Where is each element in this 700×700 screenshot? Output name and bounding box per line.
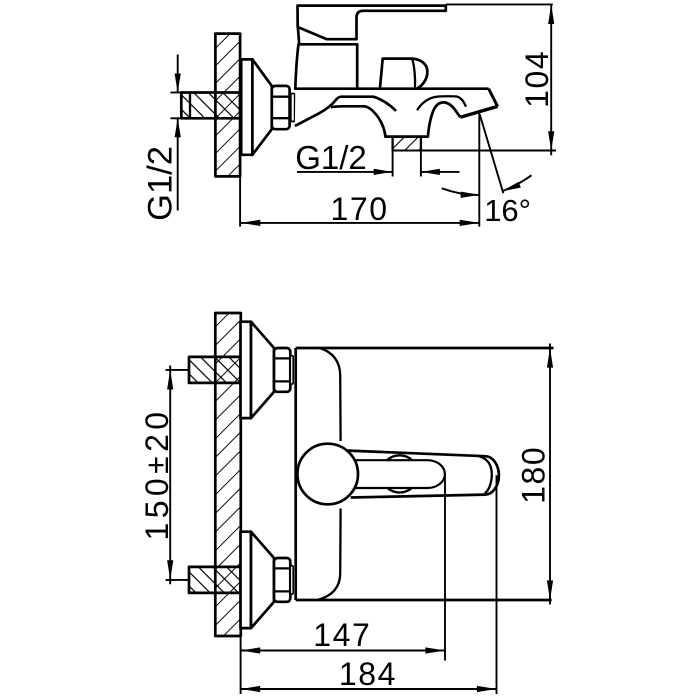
- lever end inner arc: [479, 456, 492, 493]
- svg-text:G1/2: G1/2: [295, 139, 367, 176]
- cone lower: [251, 532, 274, 628]
- extension line from wall face: [239, 176, 241, 226]
- handle lever outline: [346, 451, 499, 498]
- washer: [291, 94, 295, 122]
- dimension 104: [446, 4, 555, 155]
- outlet stub hatched: [393, 137, 421, 151]
- escutcheon flange lower: [241, 532, 252, 628]
- wall: [215, 34, 240, 177]
- pipe: [181, 93, 240, 119]
- valve body: [295, 44, 357, 88]
- dimension G1/2 supply pipe: [142, 55, 182, 221]
- diverter knob: [380, 59, 428, 89]
- body inner corner contour: [318, 348, 341, 600]
- escutcheon flange: [241, 59, 252, 154]
- nut lower: [274, 558, 290, 602]
- dimension 150+-20: [139, 366, 190, 585]
- extension wall face: [240, 628, 242, 694]
- washer lower: [290, 566, 293, 594]
- dimension 184: [241, 656, 497, 692]
- extension line outlet level: [393, 150, 556, 152]
- handle screw circle: [381, 455, 418, 492]
- extension 184: [496, 475, 498, 694]
- spout body: [295, 89, 498, 137]
- svg-text:147: 147: [313, 617, 371, 653]
- svg-text:180: 180: [516, 446, 552, 504]
- escutcheon flange upper: [241, 322, 252, 418]
- extension 147: [444, 474, 446, 661]
- dimension 170: [241, 191, 480, 227]
- body outline: [296, 348, 554, 600]
- angle dimension 16 degrees: [442, 113, 532, 228]
- pipe stub lower: [189, 567, 241, 593]
- escutcheon cone: [252, 59, 271, 154]
- wall section: [215, 313, 241, 636]
- svg-text:150±20: 150±20: [139, 408, 175, 541]
- svg-text:170: 170: [330, 191, 388, 227]
- lever top face: [350, 460, 445, 488]
- pipe stub upper: [189, 357, 241, 383]
- dimension G1/2 outlet: [295, 139, 459, 177]
- nut upper: [274, 348, 290, 392]
- washer upper: [290, 356, 293, 384]
- svg-text:184: 184: [339, 656, 397, 692]
- dimension 180: [516, 344, 554, 605]
- nut: [272, 86, 290, 129]
- svg-text:104: 104: [519, 50, 555, 108]
- knob circle: [297, 444, 358, 505]
- cone upper: [251, 322, 274, 418]
- svg-text:G1/2: G1/2: [142, 146, 180, 221]
- body base line: [295, 87, 488, 90]
- dimension 147: [241, 617, 445, 654]
- handle lever: [298, 6, 446, 40]
- svg-text:16°: 16°: [484, 193, 531, 228]
